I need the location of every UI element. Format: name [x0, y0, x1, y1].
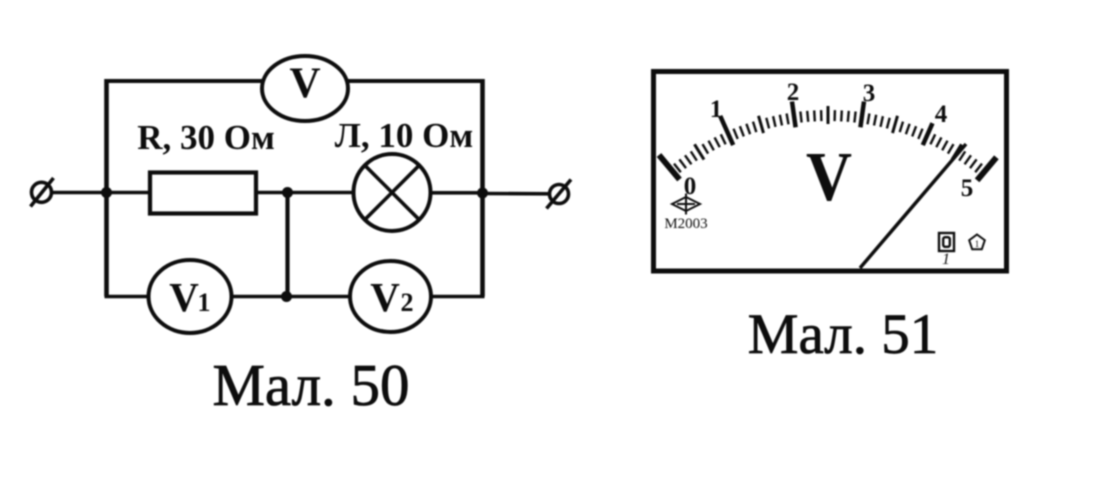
test voltage pentagon symbol — [969, 235, 985, 250]
junction node A — [101, 187, 112, 198]
svg-text:2: 2 — [401, 288, 414, 317]
scale major tick 2 — [792, 102, 796, 128]
wire lamp to node C — [431, 191, 483, 195]
wire middle vertical node B to node D — [285, 193, 289, 297]
voltmeter V — [262, 56, 348, 121]
svg-text:V: V — [289, 60, 320, 107]
svg-text:1: 1 — [942, 251, 950, 268]
svg-text:1: 1 — [198, 288, 211, 317]
lamp Л — [354, 154, 431, 231]
svg-text:2: 2 — [787, 79, 800, 106]
wire top right — [347, 79, 485, 83]
svg-text:V: V — [806, 139, 852, 216]
svg-text:Мал. 50: Мал. 50 — [212, 352, 409, 418]
voltmeter V1 — [149, 260, 232, 333]
moving-coil instrument symbol — [672, 194, 700, 215]
svg-text:V: V — [169, 274, 199, 320]
scale half ticks — [695, 106, 962, 160]
scale end tick 5 — [977, 157, 996, 180]
svg-text:5: 5 — [961, 175, 974, 202]
needle — [860, 144, 966, 268]
meter frame — [654, 72, 1007, 272]
wire left terminal to node A — [52, 191, 107, 195]
svg-text:Мал. 51: Мал. 51 — [748, 303, 938, 366]
svg-text:R, 30 Ом: R, 30 Ом — [137, 118, 275, 157]
svg-text:V: V — [370, 274, 400, 320]
wire node A to resistor — [107, 191, 151, 195]
junction node D — [281, 291, 292, 302]
scale end tick 0 — [659, 155, 680, 180]
terminal right — [547, 180, 572, 209]
svg-text:1: 1 — [710, 96, 723, 123]
junction node C — [477, 188, 488, 199]
class symbol square — [939, 233, 954, 251]
scale major tick 1 — [720, 116, 733, 145]
wire resistor to node B — [256, 191, 354, 195]
svg-text:4: 4 — [935, 101, 948, 128]
svg-text:Л, 10 Ом: Л, 10 Ом — [335, 116, 473, 155]
resistor R — [150, 173, 256, 214]
wire node C to right terminal — [483, 192, 551, 196]
terminal left — [31, 178, 54, 207]
wire bottom left — [105, 295, 150, 299]
wire right vertical branch — [480, 79, 485, 297]
wire top left — [105, 79, 264, 83]
svg-text:3: 3 — [863, 80, 876, 107]
scale major tick 3 — [860, 102, 864, 128]
scale minor ticks — [674, 110, 982, 172]
wire V2 to right branch — [431, 295, 485, 299]
scale major tick 4 — [923, 123, 933, 145]
svg-text:M2003: M2003 — [664, 216, 707, 232]
voltmeter V2 — [350, 261, 431, 332]
wire V1 to node D — [232, 295, 351, 299]
wire left vertical branch — [104, 79, 109, 297]
junction node B — [282, 187, 293, 198]
svg-text:1: 1 — [975, 239, 980, 249]
